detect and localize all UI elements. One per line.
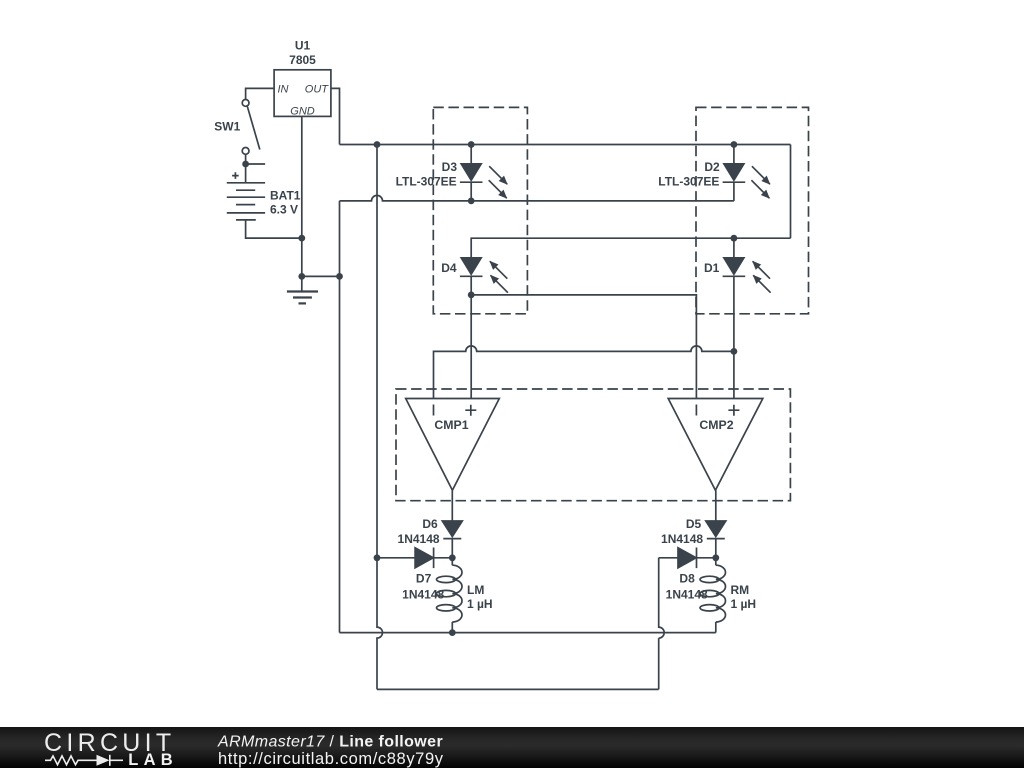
- node supply branch: [374, 141, 381, 148]
- wire supply vertical (hop over motor rail): [377, 145, 383, 690]
- wire D8 anode: [659, 557, 678, 559]
- svg-text:D6: D6: [422, 517, 438, 531]
- U1 label: [289, 38, 316, 67]
- BAT1 label: [270, 188, 301, 216]
- node ground junction: [298, 273, 305, 280]
- svg-text:OUT: OUT: [305, 83, 330, 95]
- svg-text:D3: D3: [442, 160, 458, 174]
- svg-text:LM: LM: [467, 583, 484, 597]
- node LM top: [449, 554, 456, 561]
- node D1 anode: [731, 235, 738, 242]
- wire D3 cathode: [470, 182, 472, 201]
- D7 labels: [402, 572, 444, 602]
- svg-text:LAB: LAB: [128, 751, 178, 768]
- svg-text:U1: U1: [295, 38, 311, 52]
- wire cross connection to CMP1 minus (with hops): [434, 346, 734, 399]
- wire U1 IN to SW1: [246, 88, 275, 99]
- svg-text:CMP1: CMP1: [434, 418, 468, 432]
- svg-text:LTL-307EE: LTL-307EE: [658, 175, 719, 189]
- svg-text:1N4148: 1N4148: [661, 532, 703, 546]
- wire CMP2 output to D5: [715, 490, 717, 521]
- svg-text:ARMmaster17 / Line follower: ARMmaster17 / Line follower: [217, 734, 443, 751]
- dashed sensor box right: [696, 107, 809, 313]
- svg-text:1 µH: 1 µH: [467, 597, 493, 611]
- wire top +5V rail: [340, 144, 791, 146]
- node LM bottom: [449, 629, 456, 636]
- node battery-gnd junction: [298, 235, 305, 242]
- node D3 anode: [468, 141, 475, 148]
- CircuitLab logo: [44, 729, 178, 769]
- svg-text:D2: D2: [704, 160, 720, 174]
- svg-text:GND: GND: [290, 105, 315, 117]
- wire D4 cathode to CMP1 plus: [470, 276, 472, 398]
- photodiode D4: [460, 258, 508, 293]
- wire motor ground rail: [340, 632, 716, 634]
- comparator CMP1: [406, 399, 500, 491]
- wire second rail to D4: [471, 238, 790, 258]
- wire top-right vertical: [790, 145, 792, 239]
- diode D7: [415, 548, 434, 569]
- photodiode D1: [723, 258, 771, 293]
- switch SW1: [242, 100, 260, 155]
- svg-text:1 µH: 1 µH: [731, 597, 757, 611]
- svg-text:SW1: SW1: [214, 119, 240, 133]
- svg-text:BAT1: BAT1: [270, 188, 301, 202]
- node D3 cathode: [468, 198, 475, 205]
- D6 labels: [398, 517, 440, 546]
- wire D2 anode: [733, 145, 735, 165]
- D8 labels: [666, 572, 708, 602]
- dashed sensor box left: [433, 107, 527, 313]
- wire U1 GND down: [301, 116, 303, 276]
- svg-text:7805: 7805: [289, 53, 316, 67]
- svg-text:D8: D8: [679, 572, 695, 586]
- wire BAT1 minus to ground line: [246, 220, 302, 238]
- wire D8 anode vertical (hop over motor rail): [659, 558, 665, 690]
- svg-text:IN: IN: [278, 83, 289, 95]
- D5 labels: [661, 517, 703, 546]
- inductor RM: [700, 558, 726, 633]
- node D1 cathode branch: [731, 348, 738, 355]
- diode D6: [442, 521, 462, 539]
- node left rail junction: [336, 273, 343, 280]
- node D4 cathode branch: [468, 292, 475, 299]
- wire left ground rail vertical: [339, 201, 341, 633]
- svg-text:1N4148: 1N4148: [398, 532, 440, 546]
- LM labels: [467, 583, 493, 611]
- U1 pin labels: [278, 83, 330, 117]
- battery BAT1: [227, 172, 265, 220]
- svg-text:http://circuitlab.com/c88y79y: http://circuitlab.com/c88y79y: [218, 750, 444, 768]
- D2 labels: [658, 160, 720, 189]
- comparator CMP2: [668, 399, 763, 491]
- voltage regulator U1 (7805): [274, 70, 331, 117]
- wire cathode rail to ground (with hop): [340, 195, 734, 201]
- node battery plus stub: [242, 161, 265, 168]
- diode D8: [678, 548, 697, 569]
- svg-text:D4: D4: [441, 261, 457, 275]
- dashed comparator box: [396, 389, 790, 501]
- wire bottom supply link: [377, 688, 659, 690]
- diode D5: [706, 521, 726, 539]
- D3 labels: [396, 160, 458, 189]
- wire CMP1 output to D6: [451, 490, 453, 521]
- svg-text:D5: D5: [686, 517, 702, 531]
- ground: [287, 276, 318, 303]
- svg-text:CMP2: CMP2: [699, 418, 733, 432]
- LED D3: [460, 164, 507, 198]
- wire D3 anode: [470, 145, 472, 165]
- svg-text:6.3 V: 6.3 V: [270, 203, 298, 217]
- wire ground node to left rail: [302, 275, 340, 277]
- wire D2 cathode: [733, 182, 735, 201]
- svg-text:RM: RM: [731, 583, 750, 597]
- logo resistor-diode squiggle: [45, 755, 123, 766]
- wire D1 cathode to CMP2 plus: [733, 276, 735, 398]
- wire SW1 to BAT1: [245, 154, 247, 183]
- wire D7 anode: [377, 557, 415, 559]
- svg-text:LTL-307EE: LTL-307EE: [396, 175, 457, 189]
- svg-text:D7: D7: [416, 572, 432, 586]
- wire D6 cathode to node: [451, 539, 453, 558]
- wire D7 cathode to node: [434, 557, 453, 559]
- svg-text:D1: D1: [704, 261, 720, 275]
- node RM top: [712, 554, 719, 561]
- wire D4 cathode to CMP2 minus: [471, 295, 696, 399]
- RM labels: [731, 583, 757, 611]
- node D7 anode: [374, 554, 381, 561]
- wire D8 cathode to node: [697, 557, 716, 559]
- wire D1 anode drop: [733, 238, 735, 258]
- wire D5 cathode to node: [715, 539, 717, 558]
- LED D2: [723, 164, 770, 198]
- inductor LM: [437, 558, 463, 633]
- wire U1 OUT to top rail: [331, 88, 340, 144]
- node D2 anode: [731, 141, 738, 148]
